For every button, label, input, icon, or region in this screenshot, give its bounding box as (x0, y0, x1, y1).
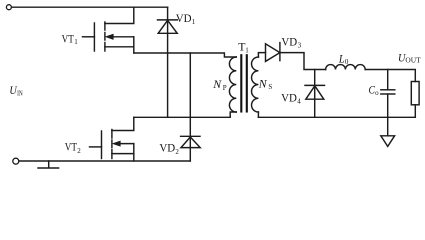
diode VD3 (266, 43, 280, 62)
ground bar (input reference) (38, 161, 59, 168)
gate lead (90, 146, 102, 148)
svg-text:1: 1 (192, 18, 196, 26)
svg-text:VD: VD (176, 11, 192, 25)
svg-text:1: 1 (74, 38, 78, 46)
transistor VT2 (MOSFET) (90, 117, 134, 161)
ground (output, open arrow) (381, 117, 395, 146)
svg-text:P: P (223, 84, 227, 92)
gate bar (101, 131, 103, 159)
wire: output return rail (258, 116, 415, 118)
svg-text:L: L (338, 51, 345, 65)
capacitor Co (381, 70, 395, 118)
wire: load bottom to return rail (414, 105, 416, 118)
diode VD2 (181, 136, 201, 147)
source/body vertical to bottom rail (133, 144, 135, 161)
drain lead (105, 7, 134, 23)
svg-text:VT: VT (65, 140, 78, 154)
drain lead up to node B (112, 117, 134, 130)
input terminal bottom (open circle) (13, 158, 19, 164)
svg-text:4: 4 (297, 98, 301, 106)
gate bar (93, 23, 95, 51)
transformer T1 core (240, 55, 242, 111)
transformer T1 secondary winding NS (252, 57, 259, 112)
body arrow lead (119, 143, 134, 145)
svg-text:3: 3 (298, 41, 302, 49)
source lead (105, 46, 134, 48)
wire: VD2 branch vertical (node A to bottom rail) (189, 53, 191, 161)
svg-text:VD: VD (281, 34, 297, 48)
svg-text:2: 2 (77, 147, 81, 155)
svg-text:o: o (375, 89, 379, 97)
wire: VD3 cathode to output rail (280, 53, 326, 70)
svg-text:1: 1 (245, 46, 249, 54)
channel segments (104, 22, 106, 30)
svg-text:0: 0 (345, 58, 349, 66)
channel segments (111, 130, 113, 139)
wire: VD1 branch vertical (167, 7, 169, 117)
wire: secondary bottom lead (257, 112, 259, 117)
svg-text:VT: VT (62, 31, 75, 45)
wire: output rail to load (365, 70, 415, 82)
svg-text:S: S (268, 83, 272, 91)
wire: secondary top lead to VD3 (258, 53, 265, 57)
diode VD1 (158, 20, 178, 33)
gate lead (83, 36, 95, 38)
svg-text:C: C (369, 83, 376, 97)
svg-text:OUT: OUT (405, 57, 421, 65)
inductor L0 (326, 65, 366, 70)
svg-text:VD: VD (281, 91, 297, 105)
diode VD4 branch vertical (314, 70, 316, 118)
source/body vertical to node A (133, 37, 135, 53)
svg-text:VD: VD (159, 140, 175, 154)
body arrow lead (112, 36, 134, 38)
wire: bottom rail (19, 160, 190, 162)
diode VD4 (305, 85, 325, 99)
transformer T1 primary winding NP (229, 57, 236, 112)
wire: top rail (12, 6, 168, 8)
load resistor (411, 82, 419, 105)
transistor VT1 (MOSFET) (83, 7, 134, 53)
input terminal top (open circle) (6, 5, 11, 10)
wire: node A line to transformer primary top (134, 53, 237, 57)
svg-text:N: N (258, 76, 268, 90)
svg-text:N: N (212, 77, 222, 91)
svg-text:IN: IN (17, 89, 23, 97)
wire: node B line (VT2 drain to transformer primary bottom) (134, 112, 237, 117)
svg-text:2: 2 (175, 148, 179, 156)
source lead (112, 153, 134, 155)
